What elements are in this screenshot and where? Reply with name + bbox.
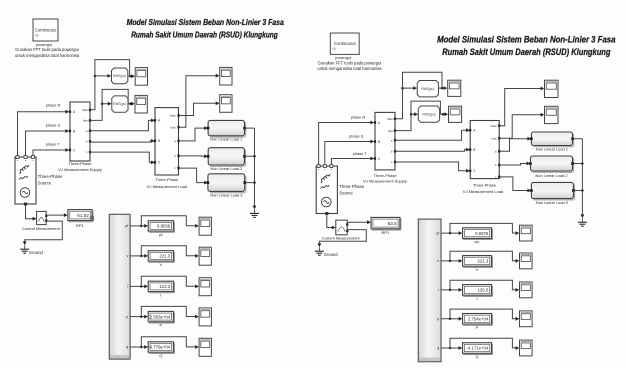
svg-text:Continuous: Continuous: [35, 27, 57, 32]
wires NLL outputs to ground bus right: [573, 139, 583, 191]
svg-text:Iabc: Iabc: [83, 119, 89, 123]
wire phase S left: [26, 131, 67, 156]
svg-text:P: P: [159, 323, 162, 328]
scope I supply left: [135, 95, 147, 113]
wire source to current measurement left: [26, 204, 35, 219]
three-phase source right: [316, 166, 337, 213]
display I right: [463, 285, 492, 296]
three-phase V-I measurement load right: [470, 121, 499, 179]
non linear load 3 right: [531, 182, 573, 198]
svg-text:untuk menganalisa total harmon: untuk menganalisa total harmonisa: [15, 53, 80, 58]
svg-text:untuk menganalisa total harmon: untuk menganalisa total harmonisa: [317, 66, 382, 71]
svg-text:RMS(pu): RMS(pu): [113, 74, 126, 78]
wire load Vabc to scope B left: [179, 103, 217, 115]
svg-text:Vabc: Vabc: [490, 124, 497, 128]
three-phase source left: [15, 157, 36, 204]
wire subsystem P row right: [441, 318, 460, 320]
wire supply c to load C left: [90, 152, 152, 162]
svg-text:V: V: [476, 267, 479, 272]
scope load upper left: [220, 67, 232, 85]
svg-text:▪: ▪: [331, 168, 332, 172]
svg-text:Three-Phase: Three-Phase: [38, 174, 63, 179]
wire loop Iabc to scope2 left: [102, 89, 128, 103]
svg-text:Three-Phase: Three-Phase: [339, 184, 364, 189]
svg-text:221.3: 221.3: [478, 259, 489, 264]
wire CM to display RP1 right: [347, 221, 368, 223]
svg-text:RMS(pu): RMS(pu): [422, 112, 435, 116]
wire phase R right: [319, 123, 372, 165]
scope P right: [520, 311, 533, 327]
svg-text:Source: Source: [339, 190, 353, 195]
svg-text:phase R: phase R: [351, 115, 366, 120]
RMS2 block right: [418, 106, 439, 122]
scope Q right: [520, 340, 533, 356]
svg-text:▪: ▪: [25, 159, 26, 163]
svg-text:q: q: [126, 345, 128, 349]
measurement subsystem right: [418, 219, 441, 362]
svg-text:Non Linear Load 2: Non Linear Load 2: [535, 173, 567, 178]
svg-text:powergui: powergui: [335, 55, 351, 60]
wire loop Vabc to scope1 left: [95, 60, 130, 77]
scope load upper right: [545, 80, 559, 97]
display Q right: [463, 343, 492, 354]
svg-text:p: p: [437, 317, 439, 321]
svg-text:Rumah Sakit Umum Daerah (RSUD): Rumah Sakit Umum Daerah (RSUD) Klungkung: [131, 31, 278, 40]
wire supply b to load B right: [395, 150, 467, 152]
ground left: [24, 245, 26, 249]
svg-text:Rumah Sakit Umum Daerah (RSUD): Rumah Sakit Umum Daerah (RSUD) Klungkung: [442, 47, 611, 57]
wire load b to NLL2 left: [179, 155, 206, 157]
wire subsystem V row right: [441, 260, 460, 262]
svg-text:pf: pf: [436, 231, 439, 235]
measurement subsystem left: [109, 214, 130, 359]
svg-text:Model Simulasi Sistem Beban No: Model Simulasi Sistem Beban Non-Linier 3…: [127, 18, 285, 27]
powergui block left: [33, 19, 58, 41]
svg-text:Iabc: Iabc: [491, 137, 497, 141]
wire load Vabc to scope upper right: [499, 89, 542, 126]
svg-text:63.5: 63.5: [388, 221, 397, 226]
scope P left: [199, 308, 211, 326]
svg-text:q: q: [437, 346, 439, 350]
svg-text:Vabc: Vabc: [82, 108, 89, 112]
RMS1 block right: [417, 81, 438, 97]
svg-text:Non Linear Load 3: Non Linear Load 3: [210, 193, 242, 198]
svg-text:Model Simulasi Sistem Beban No: Model Simulasi Sistem Beban Non-Linier 3…: [437, 35, 615, 45]
svg-text:phase T: phase T: [46, 141, 61, 146]
scope load lower left: [220, 95, 232, 113]
svg-text:Ground: Ground: [29, 250, 44, 255]
svg-text:Non Linear Load 1: Non Linear Load 1: [536, 147, 568, 152]
scan mark: [91, 216, 94, 221]
scope I supply right: [449, 106, 462, 122]
svg-text:V-I Measurement Load: V-I Measurement Load: [147, 184, 187, 189]
scope I left: [199, 278, 211, 296]
wire Iabc supply to RMS2 left: [90, 104, 109, 121]
svg-text:V-I Measurement Supply: V-I Measurement Supply: [363, 179, 407, 184]
scope load lower right: [545, 106, 559, 123]
svg-text:-4.171e+04: -4.171e+04: [466, 346, 488, 351]
current measurement block left: [37, 211, 47, 224]
svg-text:pf: pf: [125, 224, 128, 228]
non linear load 2 right: [531, 156, 573, 171]
wire CM return to ground left: [25, 221, 63, 242]
wire load a to NLL1 left: [179, 128, 206, 141]
svg-text:2.754e+04: 2.754e+04: [468, 317, 489, 322]
wire supply a to load A right: [395, 130, 467, 140]
wire loop Iabc to scope2 right: [411, 101, 440, 114]
svg-text:v: v: [437, 259, 439, 263]
svg-text:p: p: [126, 315, 128, 319]
display P left: [148, 311, 173, 321]
svg-text:phase S: phase S: [349, 134, 364, 139]
ground NLL right: [581, 218, 583, 222]
wire load Iabc to scope lower right: [499, 115, 542, 139]
svg-text:126.5: 126.5: [478, 288, 489, 293]
wire subsystem V row left: [130, 255, 146, 257]
wire phase T left: [33, 150, 66, 156]
wire load c to NLL3 right: [499, 177, 529, 191]
wire load b to NLL2 right: [499, 164, 528, 166]
svg-text:▪: ▪: [32, 159, 33, 163]
scope V left: [199, 247, 211, 265]
wire load c to NLL3 left: [179, 168, 206, 183]
svg-text:Non Linear Load 2: Non Linear Load 2: [210, 166, 242, 171]
powergui block right: [330, 33, 359, 54]
current measurement block right: [336, 220, 347, 235]
svg-text:-4.779e+04: -4.779e+04: [148, 345, 170, 350]
scope pf left: [199, 217, 211, 235]
wire subsystem PF row right: [441, 232, 460, 234]
wire subsystem Q row left: [130, 346, 146, 348]
svg-text:Q: Q: [475, 354, 478, 359]
svg-text:phase R: phase R: [46, 103, 61, 108]
svg-text:Source: Source: [38, 181, 52, 186]
wire supply a to load A left: [90, 120, 152, 130]
svg-text:PF: PF: [474, 239, 480, 244]
ground right: [318, 247, 320, 251]
RMS2 block left: [112, 96, 128, 112]
svg-text:▪: ▪: [318, 168, 319, 172]
svg-text:Three-Phase: Three-Phase: [373, 173, 397, 178]
display RP1 right: [371, 217, 400, 228]
non linear load 1 right: [531, 132, 572, 146]
display I left: [148, 281, 173, 291]
wire source to current measurement right: [327, 214, 334, 228]
svg-text:Three-Phase: Three-Phase: [155, 177, 179, 182]
svg-text:122.3: 122.3: [159, 284, 170, 289]
svg-text:2.563e+04: 2.563e+04: [150, 314, 171, 319]
display V left: [148, 251, 173, 261]
svg-text:phase S: phase S: [46, 122, 61, 127]
svg-text:▪: ▪: [17, 159, 18, 163]
RMS1 block left: [112, 68, 128, 84]
scope V supply left: [135, 68, 147, 86]
svg-text:0.8036: 0.8036: [157, 224, 171, 229]
ground NLL left: [254, 209, 256, 213]
wire phase R left: [18, 112, 67, 156]
svg-text:I: I: [160, 292, 161, 297]
scope V right: [520, 253, 533, 269]
wire load Iabc to scope A left: [179, 76, 217, 128]
svg-text:RMS(pu): RMS(pu): [113, 102, 126, 106]
wire subsystem P row left: [130, 316, 146, 318]
svg-text:Vabc: Vabc: [387, 117, 394, 121]
three-phase V-I measurement supply right: [375, 112, 395, 169]
scope V supply right: [448, 80, 461, 96]
wires NLL outputs to ground bus left: [244, 128, 254, 183]
wire supply b to load B left: [90, 141, 152, 142]
wire Vabc supply to RMS1 right: [395, 88, 414, 119]
wire Iabc supply to RMS2 right: [395, 114, 416, 130]
svg-text:221.3: 221.3: [159, 254, 170, 259]
svg-text:RP1: RP1: [382, 230, 391, 235]
scope Q left: [199, 338, 211, 356]
svg-text:P: P: [476, 325, 479, 330]
svg-text:Current Measurement: Current Measurement: [322, 235, 361, 240]
wire phase S right: [325, 142, 372, 165]
svg-text:0.8376: 0.8376: [475, 231, 489, 236]
wire loop Vabc to scope1 right: [403, 72, 443, 88]
svg-text:Iabc: Iabc: [170, 125, 176, 129]
svg-text:Vabc: Vabc: [169, 114, 176, 118]
svg-text:Ground: Ground: [324, 252, 339, 257]
svg-text:V-I Measurement Supply: V-I Measurement Supply: [58, 167, 102, 172]
svg-text:RMS(pu): RMS(pu): [421, 87, 434, 91]
wire CM return to ground right: [319, 230, 366, 244]
svg-text:V-I Measurement Load: V-I Measurement Load: [463, 189, 503, 194]
svg-text:Q: Q: [159, 353, 162, 358]
wire supply c to load C right: [395, 162, 467, 171]
display P right: [463, 314, 492, 325]
scope I right: [520, 282, 533, 298]
svg-text:RP1: RP1: [76, 223, 85, 228]
non linear load 1 left: [208, 120, 244, 135]
svg-text:Non Linear Load 3: Non Linear Load 3: [536, 200, 568, 205]
display RP1 left: [68, 210, 92, 221]
svg-text:V: V: [159, 262, 162, 267]
svg-text:Iabc: Iabc: [388, 129, 394, 133]
wire RMS1 to scope right: [439, 87, 445, 89]
display V right: [463, 256, 492, 267]
wire subsystem I row left: [130, 285, 146, 287]
svg-text:phase T: phase T: [353, 151, 368, 156]
wire phase T right: [331, 159, 371, 165]
scope PF right: [520, 225, 533, 241]
svg-text:Three-Phase: Three-Phase: [473, 183, 497, 188]
wire CM to display RP1 left: [46, 214, 65, 216]
wire RMS2 to scope right: [440, 113, 446, 115]
wire subsystem pf row left: [130, 225, 146, 227]
wire subsystem I row right: [441, 289, 460, 291]
svg-text:Three-Phase: Three-Phase: [68, 161, 92, 166]
svg-text:Non Linear Load 1: Non Linear Load 1: [210, 137, 242, 142]
svg-text:Gunakan FFT tools pada powergu: Gunakan FFT tools pada powergui: [318, 60, 382, 65]
three-phase V-I measurement supply left: [70, 102, 90, 161]
wire subsystem Q row right: [441, 347, 460, 349]
three-phase V-I measurement load left: [155, 108, 179, 175]
wire RMS1 to scope V left: [128, 75, 133, 77]
svg-text:▪: ▪: [324, 168, 325, 172]
non linear load 3 left: [208, 174, 245, 192]
display PF right: [463, 228, 492, 239]
svg-text:61.62: 61.62: [77, 213, 89, 218]
non linear load 2 left: [208, 148, 244, 165]
wire Vabc supply to RMS1 left: [90, 76, 109, 110]
svg-text:Continuous: Continuous: [334, 41, 356, 46]
svg-text:v: v: [127, 254, 129, 258]
svg-text:I: I: [476, 296, 477, 301]
display Q left: [148, 342, 173, 352]
svg-text:Gunakan FFT tools pada powergu: Gunakan FFT tools pada powergui: [15, 47, 79, 52]
svg-text:powergui: powergui: [36, 42, 52, 47]
wire load a to NLL1 right: [499, 139, 529, 152]
display pf left: [148, 221, 173, 231]
svg-text:Current Measurement: Current Measurement: [22, 226, 61, 231]
wire RMS2 to scope I left: [128, 103, 132, 105]
